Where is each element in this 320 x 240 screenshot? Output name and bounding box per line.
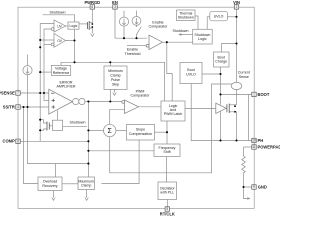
svg-text:AMPLIFIER: AMPLIFIER (57, 85, 76, 89)
pin POWERPAD (252, 145, 256, 149)
svg-text:1: 1 (253, 93, 255, 97)
pin PWRGD (90, 5, 94, 9)
wire en cs2 top stub (136, 11, 138, 17)
gnd arrow right head (247, 197, 250, 200)
svg-text:7: 7 (17, 91, 19, 95)
wire shutdown bus long (61, 62, 165, 101)
wire gnd down arrow right (244, 187, 249, 199)
node bus-ov (73, 61, 75, 63)
node vref-tap (39, 71, 41, 73)
power mosfet (227, 104, 229, 114)
maximum clamp box (78, 177, 95, 190)
node en-cs1 (123, 37, 125, 39)
wire thermal shutdown to SL top (195, 16, 198, 29)
wire comp to freq shift (88, 150, 154, 152)
node minclamp-comp (109, 100, 111, 102)
en current source 2 (132, 17, 141, 26)
node uvlo-vin (235, 16, 237, 18)
wire boot line to boot pin (221, 93, 252, 95)
wire shutdown arrow from SL (179, 34, 193, 36)
svg-text:VSENSE: VSENSE (0, 90, 15, 95)
svg-text:10: 10 (252, 139, 256, 143)
node bootrail-boot (219, 93, 221, 95)
node pwrgd-src (91, 26, 93, 28)
wire rail2 to voltage reference (40, 71, 51, 73)
wire en cs2 bottom stub (136, 25, 138, 27)
wire EA output node (86, 101, 125, 103)
svg-text:Boot: Boot (187, 68, 194, 72)
wire oscillator to rtclk pin (166, 200, 168, 207)
boot uvlo box (180, 63, 202, 84)
svg-text:Shutdown: Shutdown (50, 11, 66, 15)
wire VSENSE line (20, 92, 49, 94)
wire powerpad resistor top (243, 147, 245, 156)
wire freq shift to oscillator (165, 157, 167, 183)
node fet-ph (235, 139, 237, 141)
wire fet drain stub (40, 120, 47, 123)
thermal shutdown box (177, 10, 196, 21)
pwm comparator triangle (122, 100, 139, 114)
svg-text:8: 8 (17, 140, 19, 144)
node vin-boot (235, 42, 237, 44)
wire boot-ph vertical (248, 94, 250, 140)
node comp-fs (87, 150, 89, 152)
wire ss discharge fet rail (39, 93, 41, 141)
svg-text:Reference: Reference (53, 71, 70, 75)
wire overload recovery to max clamp (62, 183, 78, 185)
ss discharge fet (47, 122, 49, 131)
error amplifier triangle (49, 89, 73, 114)
node comp-164 (87, 163, 89, 165)
min clamp gnd arrow (113, 89, 116, 95)
svg-text:Logic: Logic (70, 24, 78, 28)
svg-text:UVLO: UVLO (186, 72, 196, 76)
wire en cs1 bottom (123, 26, 125, 38)
pwrgd mosfet (88, 21, 90, 30)
node dischg-src (39, 129, 41, 131)
power mosfet body dots (234, 105, 236, 112)
wire pwrgd pin to fet drain (89, 9, 92, 23)
wire driver bottom to PH (220, 111, 222, 140)
slope compensation box (127, 125, 155, 141)
svg-text:Threshold: Threshold (125, 52, 141, 56)
wire en switch diagonal (137, 27, 142, 39)
node sstr-b (26, 106, 28, 108)
overload recovery box (38, 177, 62, 191)
svg-text:Compensation: Compensation (129, 132, 152, 136)
svg-text:VIN: VIN (233, 0, 240, 5)
wire fet gate line (50, 125, 53, 127)
wire rail2 stub to OV- (44, 43, 51, 45)
logic and pwm latch box (161, 101, 185, 121)
wire OV out to logic bottom (66, 29, 75, 40)
enable comparator triangle (146, 35, 162, 50)
svg-text:EN: EN (112, 0, 118, 5)
svg-text:Shift: Shift (163, 150, 170, 154)
wire overload recovery top leg (54, 164, 56, 177)
pin BOOT (252, 92, 256, 96)
ea output gm circles (73, 98, 85, 104)
node comp-pin (87, 140, 89, 142)
node gnd (242, 186, 244, 188)
svg-text:4: 4 (17, 105, 19, 109)
pin COMP (16, 139, 20, 143)
wire ss current source bottom (27, 75, 29, 107)
wire en threshold line (127, 45, 146, 47)
svg-text:Pulse: Pulse (111, 78, 120, 82)
wire pwrgd fet source to gnd arrow (89, 28, 92, 34)
pin RTCLK (165, 207, 169, 211)
pin PH (252, 138, 256, 142)
gate driver triangle (216, 103, 226, 113)
svg-text:Shutdown: Shutdown (70, 121, 86, 125)
svg-text:Clamp: Clamp (81, 184, 91, 188)
wire boot rail (220, 67, 222, 105)
pin VIN (234, 5, 238, 9)
node slope-tap (166, 131, 168, 133)
wire logic to pwrgd fet gate (79, 23, 88, 25)
node ov-out (73, 39, 75, 41)
wire slope comp bottom to max clamp arrow (102, 140, 140, 184)
svg-text:RT/CLK: RT/CLK (160, 211, 175, 216)
svg-text:5: 5 (166, 207, 168, 211)
wire sigma left input (88, 129, 103, 131)
node en-cs2 (135, 37, 137, 39)
svg-text:Skip: Skip (112, 82, 119, 86)
wire pwm out to latch (139, 106, 162, 108)
svg-text:GND: GND (258, 184, 267, 189)
wire comp net vertical (87, 102, 89, 178)
wire shutdown box right to sigma (63, 126, 87, 128)
wire VSENSE rail1 up to UV+ (40, 24, 54, 94)
wire vin branch to boot charge (222, 44, 237, 53)
svg-text:Logic: Logic (198, 37, 207, 41)
wire UV out to logic (66, 25, 69, 27)
en current source 1 (119, 17, 128, 26)
mc box gnd arrow (85, 190, 88, 201)
svg-text:9: 9 (253, 185, 255, 189)
wire en comp out to shutdown logic (163, 41, 193, 43)
pin SSTR (16, 105, 20, 109)
wire cs ellipse to fet drain (236, 90, 238, 105)
wire shutdown underline to Logic top (43, 15, 75, 22)
pin GND (252, 185, 256, 189)
node rail1-ov (39, 39, 41, 41)
comparator OV (51, 34, 65, 48)
node comp-out (87, 100, 89, 102)
wire EN pin down and along (115, 9, 147, 38)
ss current source (23, 66, 32, 75)
wire vref down weird (48, 92, 50, 94)
minimum clamp pulse skip box (104, 66, 127, 89)
wire latch to driver (185, 107, 216, 109)
wire COMP line (20, 140, 88, 142)
svg-text:SS/TR: SS/TR (3, 104, 15, 109)
svg-text:Recovery: Recovery (42, 184, 57, 188)
wire fet source to PH (229, 112, 236, 141)
wire resistor bottom to gnd (243, 175, 245, 187)
svg-text:2: 2 (236, 5, 238, 9)
wire en comp out branch to latch (167, 42, 172, 101)
or box gnd arrow (52, 191, 55, 201)
wire sigma bottom to current sense (110, 84, 232, 173)
boot charge box (214, 52, 230, 67)
wire SS/TR line (20, 106, 49, 108)
wire en cs1 top stub (123, 11, 125, 17)
node rail2-ov (39, 46, 41, 48)
wire boot uvlo bottom to PH line (191, 82, 252, 141)
ea shutdown box (52, 120, 62, 130)
svg-text:BOOT: BOOT (258, 92, 270, 97)
svg-text:POWERPAD: POWERPAD (258, 144, 281, 149)
svg-text:3: 3 (114, 5, 116, 9)
ea input signs (51, 93, 55, 109)
wire fet drain stub (229, 104, 236, 106)
current sense ellipse (231, 82, 242, 89)
wire shutdown box top stub (57, 111, 59, 121)
svg-text:PH: PH (258, 138, 264, 143)
wire vin rail (236, 9, 238, 83)
wire min clamp down to comp line (109, 89, 111, 101)
voltage reference box (51, 65, 70, 75)
sigma summing circle (104, 124, 116, 136)
wire min clamp top to shutdown bus (109, 62, 111, 66)
pin VSENSE (16, 91, 20, 95)
wire latch bottom to freq shift (166, 121, 168, 144)
wire uvlo left to SL top (207, 17, 210, 30)
svg-text:PWRGD: PWRGD (84, 0, 100, 5)
wire ss branch2 down (28, 107, 89, 164)
wire sigma up to pwm comp (110, 109, 125, 124)
node vsense-rail2 (43, 92, 45, 94)
svg-text:11: 11 (252, 145, 256, 149)
wire uvlo right to vin rail (227, 16, 236, 18)
svg-text:6: 6 (91, 5, 93, 9)
svg-text:with PLL: with PLL (160, 191, 174, 195)
svg-text:Charge: Charge (215, 60, 227, 64)
frequency shift box (154, 144, 180, 157)
wire gnd pin stub (244, 186, 253, 188)
svg-text:Comparator: Comparator (149, 25, 169, 29)
node sstr-a (22, 106, 24, 108)
shutdown logic box (193, 29, 213, 44)
wire sigma right to slope comp (116, 129, 127, 131)
node pwrgd-drain (91, 23, 93, 25)
wire boot uvlo right stub (202, 73, 221, 75)
svg-text:Shutdown: Shutdown (173, 29, 189, 33)
node sigma-tap (87, 129, 89, 131)
svg-text:Σ: Σ (108, 128, 113, 135)
shutdown arrow head (178, 33, 181, 36)
node bootrail-bu (219, 73, 221, 75)
uvlo box (210, 11, 228, 20)
wire ss current source top (27, 55, 29, 66)
wire slope comp right tap (155, 131, 168, 133)
svg-text:Sense: Sense (239, 75, 249, 79)
svg-text:Shutdown: Shutdown (178, 16, 194, 20)
svg-text:COMP: COMP (3, 139, 16, 144)
oscillator box (158, 182, 177, 200)
wire rail2 down to vsense line (44, 100, 49, 102)
outer border frame (18, 7, 254, 208)
logic box (pwrgd) (68, 22, 79, 29)
wire fet source stub (40, 129, 47, 130)
svg-text:Minimum: Minimum (108, 69, 123, 73)
pin EN (113, 5, 117, 9)
wire rail1 branch to OV+ (40, 39, 54, 41)
wire powerpad stub (244, 146, 252, 148)
wire ss branch to overload recovery (24, 107, 39, 184)
svg-text:Clamp: Clamp (110, 73, 120, 77)
comparator UV (51, 20, 65, 32)
powerpad resistor (242, 156, 246, 175)
svg-text:PWM Latch: PWM Latch (164, 112, 183, 116)
node vsense-rail1 (39, 92, 41, 94)
node bus-mc (109, 61, 111, 63)
node dischg-drain (39, 119, 41, 121)
wire ov node riser to bus (74, 41, 76, 63)
node en-out (166, 41, 168, 43)
pwrgd gnd arrow (91, 34, 95, 37)
wire rail2 UV- threshold (44, 29, 51, 101)
svg-text:UVLO: UVLO (214, 15, 224, 19)
node driver-ph (219, 139, 221, 141)
svg-text:Comparator: Comparator (131, 94, 151, 98)
